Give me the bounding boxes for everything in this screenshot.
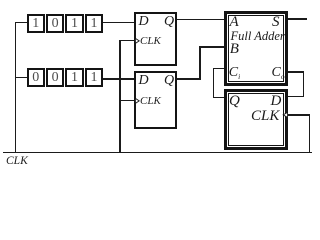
flip-flop U1 label D: [139, 15, 149, 29]
register R2 cell bit2 value 0: [46, 68, 65, 87]
flip-flop U2 box: [134, 71, 177, 129]
wire: stub to register R1 input: [15, 22, 27, 23]
wire: Co feedback vertical: [303, 71, 304, 96]
carry flip-flop U4 label D: [271, 94, 282, 109]
carry flip-flop U4 clock triangle: [282, 112, 288, 118]
wire: clock branch to FF1 CLK: [119, 40, 134, 41]
node CLK label: [6, 156, 28, 168]
wire: FF2 Q output horizontal: [177, 78, 201, 79]
wire: FF2 Q vertical riser: [199, 46, 200, 79]
carry flip-flop U4 box: [224, 89, 289, 150]
wire: riser to full adder B: [199, 46, 224, 47]
wire: clock branch to FF2 CLK: [119, 100, 134, 101]
register R2 cell bit3 value 0: [27, 68, 46, 87]
register R2 cell bit0 value 1: [85, 68, 104, 87]
full adder U3 label A: [230, 15, 239, 30]
full adder U3 label S: [272, 15, 280, 30]
wire: carry FF Q output horizontal: [213, 97, 224, 98]
full adder U3 label B: [230, 42, 239, 57]
wire: full adder S output: [288, 18, 307, 19]
flip-flop U2 label Q: [164, 74, 174, 88]
flip-flop U1 label CLK: [140, 36, 161, 47]
flip-flop U2 label D: [139, 74, 149, 88]
register R1 cell bit3 value 1: [27, 14, 46, 33]
carry flip-flop U4 label CLK: [251, 109, 279, 124]
wire: stub to register R2 input: [15, 77, 27, 78]
wire: Co feedback to carry FF D: [288, 96, 304, 97]
wire: full adder Co output horizontal: [288, 71, 304, 72]
flip-flop U1 label Q: [164, 15, 174, 29]
wire: clock drop vertical to rail: [119, 40, 120, 153]
wire: R1 output to FF1 D input: [103, 22, 134, 23]
wire: R2 output to FF2 D input: [103, 78, 134, 79]
carry flip-flop U4 label Q: [229, 94, 240, 109]
wire: FF1 Q to full adder A: [177, 19, 225, 20]
wire: carry FF CLK horizontal: [288, 114, 310, 115]
flip-flop U2 label CLK: [140, 96, 161, 107]
register R1 cell bit2 value 0: [46, 14, 65, 33]
full adder U3 inner frame: [228, 15, 284, 82]
full adder U3 label Ci: [229, 66, 240, 81]
wire: clock rail horizontal bottom: [3, 152, 312, 153]
register R1 cell bit0 value 1: [85, 14, 104, 33]
flip-flop U1 box: [134, 12, 177, 66]
wire: feedback to full adder Ci: [213, 68, 224, 69]
full adder U3 label Full Adder: [231, 30, 285, 43]
register R2 cell bit1 value 1: [65, 68, 84, 87]
carry flip-flop U4 inner frame: [228, 93, 285, 146]
flip-flop U2 clock triangle: [135, 98, 140, 104]
register R1 cell bit1 value 1: [65, 14, 84, 33]
flip-flop U1 clock triangle: [135, 38, 140, 44]
full adder U3 box: [224, 11, 288, 86]
wire: carry FF CLK drop to rail: [309, 114, 310, 153]
wire: carry feedback vertical: [213, 68, 214, 98]
full adder U3 label Co: [272, 66, 285, 81]
wire: left vertical bus: [15, 22, 16, 153]
